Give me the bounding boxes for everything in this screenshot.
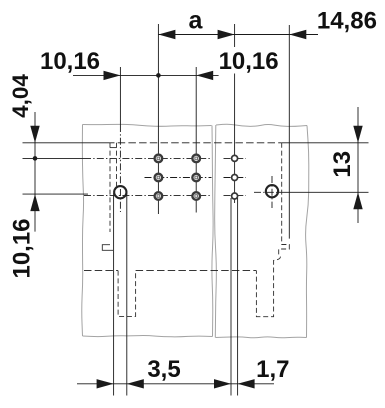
svg-text:3,5: 3,5: [147, 356, 180, 383]
svg-text:10,16: 10,16: [40, 48, 100, 75]
svg-text:14,86: 14,86: [317, 8, 377, 35]
svg-text:4,04: 4,04: [8, 74, 33, 118]
svg-text:1,7: 1,7: [256, 356, 289, 383]
svg-text:10,16: 10,16: [9, 218, 36, 278]
svg-text:10,16: 10,16: [219, 48, 279, 75]
svg-text:13: 13: [329, 151, 356, 178]
svg-text:a: a: [189, 7, 204, 35]
